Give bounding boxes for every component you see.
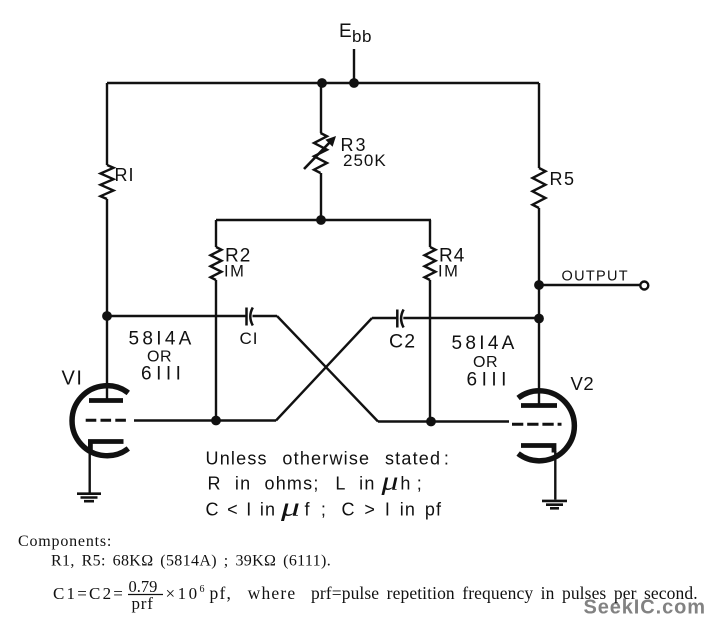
svg-text:CI: CI: [240, 329, 259, 348]
wire C2 right: [403, 317, 539, 319]
tube V2 envelope: [518, 391, 574, 461]
svg-text:6III: 6III: [141, 364, 185, 385]
tube V1 cathode: [90, 442, 123, 451]
wire cross diagonal C1 to V2 grid: [277, 316, 378, 422]
svg-text:6: 6: [200, 584, 205, 595]
svg-text:OR: OR: [473, 354, 498, 371]
node OUTPUT junction dot: [534, 280, 544, 290]
wire V1 grid segment: [134, 419, 276, 421]
wire top supply rail: [107, 82, 539, 84]
node Ebb junction dot: [349, 78, 359, 88]
svg-text:R5: R5: [550, 169, 576, 189]
svg-text:×10: ×10: [166, 584, 200, 603]
capacitor C2: [397, 310, 403, 328]
svg-text:R in ohms; L in: R in ohms; L in: [208, 474, 376, 494]
svg-text:RI: RI: [115, 165, 135, 185]
svg-text:Unless otherwise stated :: Unless otherwise stated :: [206, 449, 451, 469]
ground V2: [542, 501, 567, 508]
wire R4 branch lower: [429, 280, 431, 422]
svg-text:250K: 250K: [343, 151, 387, 170]
svg-text:58I4A: 58I4A: [129, 329, 195, 350]
svg-text:R1, R5: 68KΩ (5814A) ; 39KΩ (: R1, R5: 68KΩ (5814A) ; 39KΩ (6111).: [51, 553, 331, 570]
svg-text:prf: prf: [132, 594, 154, 613]
tube V1 envelope: [72, 386, 128, 456]
tube V2 grid dashes: [512, 423, 562, 426]
svg-text:pf, where: pf, where: [210, 583, 297, 603]
resistor R2: [211, 247, 222, 280]
label R3 250K: [341, 135, 387, 170]
wire C1 right: [253, 315, 278, 317]
svg-text:6III: 6III: [467, 370, 511, 391]
resistor R5: [533, 168, 546, 208]
svg-text:Components:: Components:: [18, 533, 112, 550]
resistor R1: [101, 165, 114, 199]
node C1 wire left junction dot: [102, 311, 112, 321]
svg-text:h ;: h ;: [400, 474, 423, 494]
ground V1: [77, 494, 101, 502]
svg-text:IM: IM: [438, 263, 459, 281]
svg-text:μ: μ: [280, 493, 302, 522]
wire right plate branch upper: [538, 83, 540, 168]
note units text block: [206, 449, 451, 522]
wire output lead: [539, 284, 640, 286]
wire left plate branch lower: [106, 199, 108, 401]
wire R3 branch lower: [320, 173, 322, 220]
wire cross diagonal C2 to V1 grid: [276, 318, 372, 421]
capacitor C1: [247, 308, 253, 326]
svg-text:C1=C2=: C1=C2=: [53, 584, 125, 603]
label Ebb: [339, 21, 372, 46]
wire R3 branch upper: [320, 83, 322, 133]
wire R2 branch lower: [215, 280, 217, 421]
wire C1 left: [107, 315, 246, 317]
node R4 bottom junction dot: [426, 417, 436, 427]
svg-text:OUTPUT: OUTPUT: [562, 269, 629, 285]
svg-text:IM: IM: [224, 263, 245, 281]
svg-text:μ: μ: [380, 466, 400, 495]
svg-text:C < I in: C < I in: [206, 500, 277, 520]
node C2 wire right junction dot: [534, 314, 544, 324]
svg-text:V2: V2: [571, 373, 595, 394]
svg-text:C2: C2: [389, 331, 416, 353]
label R2 1M: [224, 246, 251, 281]
tube V2 cathode: [521, 446, 554, 453]
wire right plate branch lower: [538, 208, 540, 406]
svg-text:58I4A: 58I4A: [452, 333, 518, 354]
tube V2 plate: [521, 403, 557, 408]
label V1 tube type 5814A OR 6111: [129, 329, 195, 385]
wire grid bias rail: [216, 219, 431, 221]
note C1 C2 formula: [53, 577, 698, 613]
wire R4 branch upper: [429, 220, 431, 247]
wire Ebb lead: [353, 49, 355, 83]
wire V2 cathode lead: [554, 451, 556, 500]
svg-text:prf=pulse repetition frequency: prf=pulse repetition frequency in pulses…: [311, 583, 698, 603]
svg-text:VI: VI: [62, 368, 84, 390]
resistor R4: [425, 247, 436, 280]
label V2 tube type 5814A OR 6111: [452, 333, 518, 391]
wire R2 branch upper: [215, 220, 217, 247]
svg-text:f ;: f ;: [305, 500, 328, 520]
tube V1 plate: [89, 398, 123, 403]
node R3 top junction dot: [317, 78, 327, 88]
wire C2 left: [372, 317, 397, 319]
terminal output: [640, 282, 648, 290]
wire V1 cathode lead: [88, 449, 90, 493]
wire left plate branch upper: [106, 83, 108, 165]
node R3 bottom junction dot: [316, 215, 326, 225]
svg-text:C > I in pf: C > I in pf: [342, 500, 443, 520]
label R4 1M: [438, 246, 465, 281]
wire V2 grid segment: [378, 420, 509, 422]
tube V1 grid dashes: [86, 419, 126, 422]
resistor R3 variable: [304, 133, 336, 173]
svg-text:E: E: [339, 21, 352, 42]
svg-text:bb: bb: [352, 27, 372, 46]
node R2 bottom junction dot: [211, 416, 221, 426]
